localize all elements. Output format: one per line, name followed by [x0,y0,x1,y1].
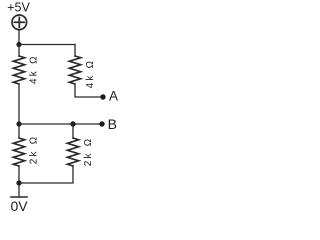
node top-left junction [16,42,21,47]
wire right 2k top stub [72,124,74,138]
svg-text:0V: 0V [10,198,28,213]
wire left rail between resistors [18,84,20,124]
wire top horizontal [19,44,75,46]
power terminal +5V (circle with plus) [12,15,27,30]
node middle-right junction [70,121,75,126]
wire middle horizontal [19,123,100,125]
wire left 2k top stub [18,124,20,138]
wire node to 0V terminal [18,183,20,197]
resistor 2kΩ left [13,138,24,166]
resistor 4kΩ left [13,56,24,84]
svg-text:B: B [108,116,117,132]
wire right 2k bottom to rail [19,166,73,183]
terminal dot A [100,94,105,99]
resistor 4kΩ right [69,56,80,84]
node bottom-left junction [16,180,21,185]
wire left branch top stub [18,45,20,57]
svg-text:4k Ω: 4k Ω [85,59,96,89]
wire supply to top node [18,30,20,45]
resistor 2kΩ right [67,138,78,166]
terminal dot B [99,121,104,126]
svg-text:2k Ω: 2k Ω [28,134,39,164]
node middle-left junction [16,121,21,126]
terminal bar 0V [11,196,27,198]
svg-text:+5V: +5V [7,1,30,15]
wire right branch top stub [74,45,76,57]
wire left 2k bottom stub [18,166,20,183]
svg-text:A: A [109,89,118,104]
svg-text:4k Ω: 4k Ω [28,54,39,84]
svg-text:2k Ω: 2k Ω [83,136,94,166]
wire right 4k to terminal A [75,84,100,97]
